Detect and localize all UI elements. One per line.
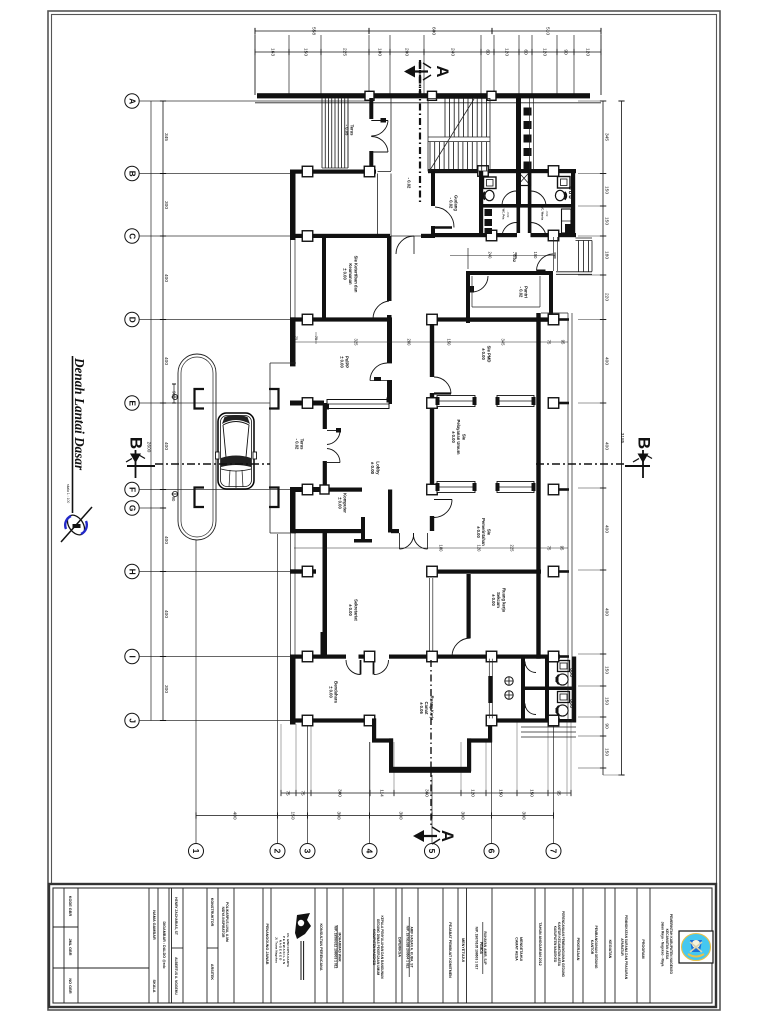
- svg-text:345: 345: [604, 133, 610, 141]
- svg-text:150: 150: [447, 339, 452, 347]
- stairs top-left (Teras -0.05 entry): [321, 98, 323, 168]
- E wall row + main doors: [290, 401, 324, 406]
- svg-text:MENGETAHUICAMAT AESA: MENGETAHUICAMAT AESA: [515, 937, 523, 961]
- svg-text:400: 400: [604, 357, 610, 365]
- cv logo: [295, 913, 311, 939]
- PulPP room: [387, 317, 392, 363]
- svg-text:60: 60: [523, 49, 529, 55]
- svg-text:150: 150: [303, 48, 309, 56]
- svg-text:J: J: [128, 718, 137, 723]
- svg-text:PENANGGUNG JAWAB: PENANGGUNG JAWAB: [265, 924, 269, 965]
- svg-text:- 0.02: - 0.02: [545, 210, 549, 217]
- svg-text:- 0.02: - 0.02: [407, 178, 412, 189]
- svg-text:KONSTRUKTOR: KONSTRUKTOR: [210, 898, 214, 927]
- svg-text:A: A: [438, 830, 456, 842]
- main entrance double doors: [323, 403, 327, 429]
- F wall left: [290, 487, 324, 492]
- urinals BL: [485, 209, 493, 216]
- cabinet BR: [562, 209, 572, 233]
- svg-text:skala 1 : 100: skala 1 : 100: [66, 484, 70, 503]
- svg-text:POLIKARPUS LINA, A.MdNIDYA INS: POLIKARPUS LINA, A.MdNIDYA INSPIRATOR: [221, 902, 229, 942]
- mid wall WC: [483, 204, 571, 208]
- corridor -0.02 axis: [419, 60, 421, 205]
- svg-text:345: 345: [163, 133, 169, 141]
- wall center vertical + dashed squares: [516, 96, 521, 205]
- svg-text:200: 200: [404, 48, 410, 56]
- svg-text:B: B: [635, 437, 654, 449]
- svg-text:Teras- 0.02: Teras- 0.02: [295, 439, 305, 451]
- porch Teras -0.02: [269, 363, 271, 533]
- WC block bottom-right: [521, 657, 525, 723]
- left dimension chain: [162, 101, 164, 721]
- right dimension chains: [602, 101, 604, 775]
- svg-text:240: 240: [450, 48, 456, 56]
- svg-text:95: 95: [557, 790, 562, 796]
- svg-text:400: 400: [163, 536, 169, 544]
- svg-text:120: 120: [504, 48, 510, 56]
- svg-text:400: 400: [163, 357, 169, 365]
- J wall + bottom bay: [294, 718, 376, 722]
- Camat room right wall: [488, 659, 490, 719]
- svg-text:CV. GBR CIPTA KARYAP E R W A K: CV. GBR CIPTA KARYAP E R W A K I L A NN …: [275, 933, 290, 968]
- toilet TR: [558, 177, 571, 189]
- svg-text:HENRY ZACHARIAS, ST: HENRY ZACHARIAS, ST: [174, 897, 178, 935]
- svg-text:325: 325: [354, 339, 359, 347]
- svg-text:A: A: [433, 66, 451, 78]
- parking loop road: [178, 354, 216, 540]
- svg-text:100: 100: [377, 48, 383, 56]
- svg-text:360: 360: [425, 789, 430, 797]
- partitions E/F rows (Sie Pelayanan Umum): [437, 396, 475, 407]
- svg-text:150: 150: [533, 252, 538, 260]
- svg-text:90: 90: [563, 49, 569, 55]
- svg-text:200: 200: [407, 339, 412, 347]
- svg-text:DIPERIKSA: DIPERIKSA: [398, 937, 402, 957]
- svg-text:D: D: [128, 317, 137, 323]
- interior dim row y342: [294, 341, 568, 343]
- svg-text:400: 400: [163, 274, 169, 282]
- svg-text:510: 510: [545, 27, 551, 35]
- svg-text:75: 75: [547, 546, 552, 551]
- svg-text:C: C: [128, 233, 137, 239]
- svg-text:PulPP± 0.00: PulPP± 0.00: [340, 356, 350, 369]
- svg-text:220: 220: [604, 293, 610, 301]
- svg-text:225: 225: [510, 545, 515, 553]
- Komputer room: [292, 529, 365, 533]
- bottom dimension chain upper: [281, 792, 571, 794]
- svg-text:3: 3: [303, 849, 313, 854]
- svg-text:300: 300: [521, 811, 527, 819]
- svg-text:300: 300: [336, 811, 342, 819]
- svg-text:120: 120: [471, 789, 476, 797]
- svg-text:Teras- 0.05: Teras- 0.05: [345, 125, 355, 137]
- svg-text:345: 345: [501, 339, 506, 347]
- grid bubbles 1-7: [189, 844, 204, 859]
- kabupaten logo: [679, 931, 713, 963]
- svg-text:150: 150: [499, 789, 504, 797]
- svg-text:120: 120: [585, 48, 591, 56]
- svg-text:95: 95: [560, 546, 565, 551]
- interior dim row y548: [294, 547, 568, 549]
- svg-text:E: E: [128, 400, 137, 406]
- title block frame: [49, 884, 716, 1007]
- svg-text:300: 300: [398, 811, 404, 819]
- svg-text:400: 400: [604, 525, 610, 533]
- lobby exit doors to south corridor: [391, 529, 399, 533]
- side steps right of corridor: [576, 237, 593, 239]
- svg-text:Pantri- 0.02: Pantri- 0.02: [519, 286, 529, 298]
- svg-text:Lobby± 0.00: Lobby± 0.00: [371, 461, 381, 475]
- svg-text:F: F: [128, 487, 137, 492]
- site retaining wall top: [257, 93, 590, 98]
- B wall row: [290, 170, 376, 174]
- svg-text:KONSULTAN PERENCANA: KONSULTAN PERENCANA: [319, 924, 323, 971]
- svg-text:300: 300: [460, 811, 466, 819]
- svg-text:TAHUN ANGGARAN 2012: TAHUN ANGGARAN 2012: [538, 922, 542, 965]
- svg-text:- 0.02: - 0.02: [512, 252, 517, 263]
- corridor verticals B-C: [377, 174, 379, 237]
- wall grid4 top with double doors: [369, 98, 373, 119]
- svg-text:SKALA: SKALA: [152, 979, 156, 992]
- svg-text:150: 150: [604, 748, 610, 756]
- svg-text:120: 120: [542, 48, 548, 56]
- svg-text:WC. Pria: WC. Pria: [502, 209, 506, 220]
- svg-text:G: G: [128, 505, 137, 511]
- svg-text:600: 600: [431, 27, 437, 35]
- car: [218, 413, 254, 489]
- bottom dimension chain lower: [196, 815, 554, 817]
- svg-text:- 0.02: - 0.02: [506, 211, 510, 218]
- Pantri room: [466, 271, 553, 275]
- svg-text:150: 150: [530, 789, 535, 797]
- svg-text:400: 400: [232, 811, 238, 819]
- svg-text:150: 150: [604, 666, 610, 674]
- svg-text:75: 75: [314, 336, 318, 340]
- svg-text:150: 150: [290, 811, 296, 819]
- consultant swoosh logo: [64, 512, 88, 538]
- svg-text:75: 75: [301, 790, 306, 796]
- svg-text:95: 95: [561, 340, 566, 345]
- D wall row: [290, 317, 391, 321]
- svg-text:90: 90: [604, 723, 610, 729]
- svg-text:150: 150: [604, 697, 610, 705]
- svg-text:163: 163: [270, 48, 276, 56]
- svg-text:PEJABAT PEMBUAT KOMITMEN: PEJABAT PEMBUAT KOMITMEN: [448, 922, 452, 978]
- section line A-A top marker: [419, 62, 421, 96]
- svg-text:DIGAMBAR : DALDO @rcb: DIGAMBAR : DALDO @rcb: [162, 921, 166, 969]
- svg-text:JML GBR: JML GBR: [68, 938, 72, 955]
- svg-text:4: 4: [365, 849, 375, 854]
- svg-text:3185: 3185: [619, 433, 625, 444]
- svg-text:225: 225: [342, 48, 348, 56]
- svg-text:WC. Wanita: WC. Wanita: [541, 206, 545, 221]
- svg-text:300: 300: [163, 201, 169, 209]
- svg-text:5: 5: [427, 849, 437, 854]
- svg-text:6: 6: [487, 849, 497, 854]
- corridor dims y255: [450, 255, 555, 257]
- H wall (Ruang kerja Sekcam top): [430, 570, 541, 574]
- svg-text:ARSITEK: ARSITEK: [210, 964, 214, 981]
- svg-text:114: 114: [380, 789, 385, 797]
- room Sie Ketertiban (C-D): [290, 234, 390, 238]
- svg-text:90: 90: [172, 391, 177, 396]
- svg-text:400: 400: [163, 610, 169, 618]
- svg-text:I: I: [128, 656, 137, 658]
- svg-text:B: B: [127, 437, 146, 449]
- svg-text:90: 90: [171, 497, 176, 502]
- svg-text:75: 75: [286, 790, 291, 796]
- svg-text:400: 400: [163, 442, 169, 450]
- svg-text:150: 150: [604, 217, 610, 225]
- svg-text:KODE GBR: KODE GBR: [68, 896, 72, 917]
- lobby right wall (c5): [430, 324, 434, 377]
- svg-text:Denah Lantai Dasar: Denah Lantai Dasar: [72, 357, 87, 471]
- Gudang room: [431, 171, 435, 206]
- right wall c7 colonnade: [536, 313, 540, 659]
- left wall B-J: [290, 170, 296, 241]
- svg-text:120: 120: [477, 545, 482, 553]
- svg-text:400: 400: [604, 442, 610, 450]
- svg-text:PEKERJAAN: PEKERJAAN: [576, 938, 580, 961]
- toilet TL: [484, 177, 497, 189]
- svg-text:240: 240: [488, 252, 493, 260]
- svg-text:300: 300: [163, 685, 169, 693]
- steps bottom right: [521, 726, 576, 728]
- svg-text:400: 400: [604, 608, 610, 616]
- shaft with X: [518, 171, 531, 186]
- top dimension chain 1: [255, 30, 601, 32]
- svg-text:H: H: [128, 569, 137, 575]
- svg-text:180: 180: [604, 251, 610, 259]
- WC block top-right: [571, 169, 575, 237]
- svg-text:558: 558: [311, 27, 317, 35]
- svg-text:1: 1: [191, 849, 201, 854]
- svg-text:300: 300: [338, 789, 343, 797]
- svg-text:60: 60: [485, 49, 491, 55]
- svg-text:NAMA GAMBAR: NAMA GAMBAR: [152, 910, 156, 940]
- I wall row: [294, 655, 346, 659]
- svg-text:75: 75: [547, 340, 552, 345]
- wc door arcs: [502, 191, 517, 205]
- svg-text:B: B: [128, 171, 137, 177]
- top dimension chain 2: [255, 51, 601, 53]
- svg-text:7: 7: [549, 849, 559, 854]
- svg-text:180: 180: [439, 545, 444, 553]
- svg-text:ALBERTUS A. NGGEMU: ALBERTUS A. NGGEMU: [174, 957, 178, 995]
- svg-text:NO GBR: NO GBR: [68, 978, 72, 993]
- svg-text:PROGRAM: PROGRAM: [641, 939, 645, 958]
- grid bubbles A-J: [125, 94, 139, 108]
- stairs center: [428, 98, 490, 171]
- svg-text:A: A: [128, 98, 137, 104]
- svg-text:2: 2: [273, 849, 283, 854]
- svg-text:150: 150: [604, 186, 610, 194]
- svg-text:KEGIATAN: KEGIATAN: [608, 940, 612, 959]
- svg-text:MENYETUJUI: MENYETUJUI: [461, 938, 465, 962]
- section line A-A bottom marker: [430, 660, 432, 770]
